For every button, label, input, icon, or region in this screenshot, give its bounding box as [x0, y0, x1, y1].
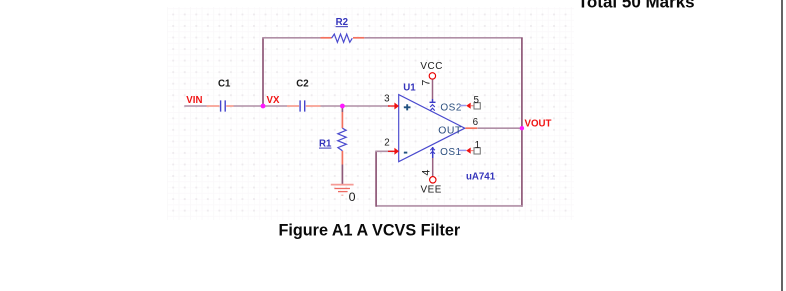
svg-text:C1: C1 [218, 78, 231, 89]
pin 5 pad square [474, 103, 480, 109]
node R1 junction dot [340, 104, 345, 109]
pin 1 pad square [474, 148, 480, 154]
wire op-amp output to VOUT node [477, 127, 522, 129]
svg-text:5: 5 [474, 95, 480, 106]
svg-text:VOUT: VOUT [525, 118, 552, 129]
capacitor C1 lead right [226, 105, 233, 107]
node VOUT dot [520, 126, 524, 130]
OS2 pin glyph [430, 105, 435, 111]
svg-text:7: 7 [420, 80, 432, 86]
resistor R2 lead left [321, 37, 332, 39]
resistor R1 [338, 128, 347, 151]
svg-text:OUT: OUT [438, 125, 462, 136]
wire VX vertical to top [262, 38, 264, 106]
VEE terminal circle [430, 177, 436, 183]
wire C2 to op-amp pin 3 [321, 105, 390, 107]
capacitor C1 [221, 100, 226, 111]
capacitor C2 [300, 100, 305, 111]
op-amp U1 triangle [399, 95, 465, 162]
svg-text:Total 50 Marks: Total 50 Marks [578, 0, 695, 11]
page right border [781, 0, 782, 291]
svg-text:VIN: VIN [186, 95, 202, 106]
svg-text:VX: VX [267, 95, 280, 106]
wire R2 to top right corner [364, 37, 522, 39]
wire VIN to C1 [184, 105, 206, 107]
pin 2 arrow [388, 148, 399, 155]
pin 7 T-bar [430, 101, 436, 103]
resistor R1 lead bottom [341, 151, 343, 165]
OS1 lead to pin 1 [459, 149, 467, 151]
svg-text:2: 2 [384, 137, 389, 148]
svg-text:R2: R2 [336, 17, 348, 28]
svg-text:1: 1 [475, 140, 480, 151]
ground [331, 185, 354, 196]
wire R1 bottom to ground [341, 165, 343, 185]
svg-text:6: 6 [473, 117, 479, 128]
svg-text:OS1: OS1 [440, 147, 462, 158]
resistor R2 [332, 34, 353, 42]
svg-text:U1: U1 [403, 83, 416, 94]
node VX dot [261, 104, 266, 109]
op-amp minus input [404, 152, 407, 154]
capacitor C2 lead right [306, 105, 321, 107]
svg-text:R1: R1 [319, 139, 332, 150]
capacitor C1 lead left [207, 105, 220, 107]
wire C1 right to C2 left [234, 105, 288, 107]
pin 3 arrow [388, 103, 399, 110]
wire bottom feedback [376, 205, 523, 207]
op-amp plus input [404, 104, 411, 110]
svg-text:Figure A1 A VCVS Filter: Figure A1 A VCVS Filter [279, 222, 461, 240]
wire R1 top connection [341, 106, 343, 112]
wire left leg of feedback [375, 151, 377, 206]
svg-text:0: 0 [349, 190, 356, 204]
svg-text:VCC: VCC [420, 61, 443, 72]
svg-text:OS2: OS2 [440, 103, 462, 114]
wire to op-amp pin 2 [375, 150, 393, 152]
svg-text:C2: C2 [296, 78, 308, 89]
resistor R1 lead top [341, 112, 343, 128]
resistor R2 lead right [353, 37, 364, 39]
OS2 lead to pin 5 [460, 105, 467, 107]
svg-text:uA741: uA741 [466, 172, 496, 183]
pin 5 arrow [466, 103, 474, 109]
capacitor C2 lead left [287, 105, 299, 107]
pin 4 lead [432, 147, 434, 158]
wire right vertical through VOUT [521, 38, 523, 207]
OS1 pin glyph [430, 148, 435, 154]
VCC terminal circle [429, 73, 435, 79]
pin 7 lead [432, 79, 434, 99]
wire top left segment to R2 [262, 37, 320, 39]
svg-text:3: 3 [384, 93, 390, 104]
grid background [167, 7, 574, 220]
svg-text:4: 4 [420, 170, 432, 176]
svg-text:VEE: VEE [421, 185, 442, 196]
pin 1 arrow [466, 148, 474, 154]
op-amp output lead [465, 127, 477, 129]
